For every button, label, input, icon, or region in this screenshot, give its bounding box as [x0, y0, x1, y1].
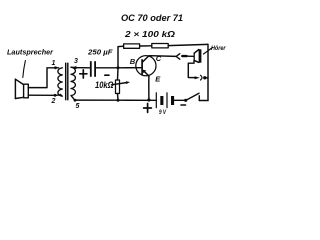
wire between resistors: [140, 45, 152, 47]
capacitor C1 250uF: [90, 61, 96, 77]
svg-text:OC 70 oder 71: OC 70 oder 71: [121, 13, 183, 23]
switch S1 pivot: [184, 99, 187, 102]
potentiometer wiper arrow: [112, 81, 131, 85]
wire capacitor to base: [96, 67, 142, 69]
svg-text:1: 1: [52, 60, 56, 67]
resistor R2 100k: [152, 44, 168, 48]
transistor collector stroke: [142, 56, 149, 62]
wire speaker top to transformer: [28, 68, 58, 88]
wire earphone bottom terminal: [188, 61, 194, 78]
transformer primary winding: [58, 68, 62, 96]
battery minus label: [181, 104, 186, 106]
svg-text:2: 2: [51, 98, 56, 105]
battery B1 9V: [156, 93, 174, 108]
wire transformer to capacitor: [71, 66, 90, 69]
node 1: [54, 66, 57, 69]
wire emitter down to rail: [148, 76, 150, 100]
svg-text:250 µF: 250 µF: [87, 48, 113, 57]
node 2: [54, 94, 57, 97]
svg-text:Hörer: Hörer: [211, 45, 226, 52]
transistor emitter stroke: [144, 71, 149, 76]
svg-text:9 V: 9 V: [159, 109, 166, 116]
svg-text:2 × 100 kΩ: 2 × 100 kΩ: [124, 29, 175, 39]
connector fork upper: [176, 54, 180, 60]
transformer secondary winding: [71, 67, 75, 100]
transistor emitter arrowhead: [142, 70, 146, 74]
svg-text:5: 5: [76, 103, 80, 110]
node emitter junction: [147, 98, 150, 101]
node pot bottom: [117, 99, 120, 102]
wire R2 to top right corner: [168, 44, 207, 45]
wire base node down to potentiometer: [117, 68, 120, 80]
node 3: [74, 66, 77, 69]
wire pin to earphone: [187, 55, 194, 57]
wire potentiometer to bottom rail: [117, 94, 120, 101]
leader line Hoerer: [204, 48, 213, 55]
capacitor C1 250uF plus sign: [80, 70, 87, 78]
wire speaker bottom to transformer: [28, 94, 60, 97]
wire socket to right border: [205, 77, 208, 79]
node lower socket: [203, 76, 206, 79]
wire collector to earphone plug: [149, 55, 176, 58]
wire base node up to bias resistors: [118, 46, 124, 68]
node base junction: [117, 66, 120, 69]
svg-text:B: B: [130, 57, 136, 66]
right border wire: [207, 44, 210, 100]
earphone body bar: [199, 49, 202, 62]
resistor R1 100k: [124, 44, 140, 48]
capacitor C1 minus sign: [105, 74, 109, 76]
svg-text:Lautsprecher: Lautsprecher: [7, 48, 54, 57]
transistor base bar: [141, 60, 143, 75]
earphone cone top: [194, 50, 199, 54]
wire battery to switch: [174, 99, 184, 101]
earphone cone bottom: [194, 60, 199, 62]
bottom rail right: [199, 100, 208, 102]
transformer core: [65, 63, 67, 100]
potentiometer 10k body: [116, 80, 120, 94]
node 5: [74, 99, 77, 102]
loudspeaker LS: [15, 79, 28, 98]
connector plug arrow lower: [195, 76, 200, 79]
switch S1 contact: [198, 96, 200, 101]
connector fork lower: [201, 75, 203, 80]
connector pin upper: [182, 55, 186, 57]
bottom rail left: [75, 99, 157, 101]
switch S1 blade: [186, 93, 199, 100]
leader line Lautsprecher: [23, 61, 26, 78]
earphone small bar: [193, 53, 195, 61]
battery plus label: [144, 104, 152, 113]
transistor Q1 circle: [136, 56, 156, 76]
svg-text:3: 3: [74, 58, 78, 65]
